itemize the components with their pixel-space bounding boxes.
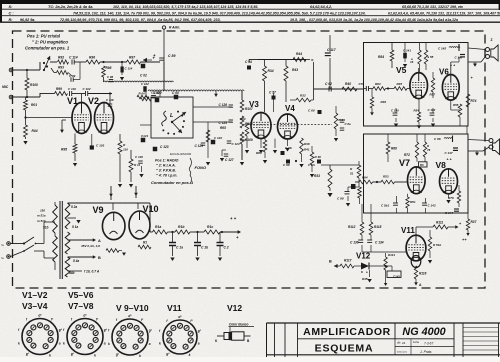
svg-text:R74: R74 bbox=[471, 99, 477, 103]
svg-text:C 126: C 126 bbox=[219, 103, 228, 107]
svg-text:C 62: C 62 bbox=[325, 82, 332, 86]
svg-text:k: k bbox=[18, 341, 20, 345]
svg-text:R109: R109 bbox=[245, 138, 253, 142]
svg-text:+: + bbox=[236, 235, 239, 240]
svg-text:V12: V12 bbox=[227, 303, 242, 313]
svg-text:R117: R117 bbox=[344, 259, 352, 263]
svg-text:C 60: C 60 bbox=[308, 109, 315, 113]
svg-text:fecha: fecha bbox=[413, 341, 420, 344]
svg-text:R97: R97 bbox=[129, 56, 135, 60]
svg-text:C 99: C 99 bbox=[69, 74, 76, 78]
svg-text:R 04: R 04 bbox=[139, 92, 145, 96]
svg-text:110: 110 bbox=[123, 148, 128, 152]
svg-text:V8: V8 bbox=[436, 160, 447, 170]
svg-text:a 55: a 55 bbox=[428, 55, 434, 59]
svg-text:R 36: R 36 bbox=[315, 155, 322, 159]
svg-text:V7–V8: V7–V8 bbox=[68, 301, 94, 311]
svg-text:24: 24 bbox=[402, 341, 406, 345]
svg-text:5 4a: 5 4a bbox=[73, 259, 79, 263]
svg-text:k: k bbox=[189, 353, 191, 357]
svg-text:V11: V11 bbox=[167, 303, 182, 313]
svg-text:V7: V7 bbox=[399, 158, 410, 168]
svg-text:64,62,64,4,2,: 64,62,64,4,2, bbox=[310, 5, 332, 9]
svg-text:C 103: C 103 bbox=[96, 144, 105, 148]
svg-text:Color blanco: Color blanco bbox=[229, 323, 249, 327]
svg-text:R0: R0 bbox=[420, 163, 424, 167]
svg-text:+ +: + + bbox=[447, 158, 452, 162]
svg-text:″ 2: PU magnético: ″ 2: PU magnético bbox=[32, 40, 68, 45]
svg-text:″ 3: P.P.R.B.: ″ 3: P.P.R.B. bbox=[156, 169, 176, 173]
svg-text:C 5b1: C 5b1 bbox=[381, 204, 390, 208]
svg-text:TC: 2a,2a, 2m,2b & 4a 4a.: TC: 2a,2a, 2m,2b & 4a 4a. bbox=[48, 5, 93, 9]
svg-text:C70: C70 bbox=[359, 82, 365, 86]
svg-text:65,68,68 70,1,30 131, 132/17: 65,68,68 70,1,30 131, 132/17 199, etc bbox=[402, 5, 463, 9]
svg-text:51: 51 bbox=[350, 172, 354, 176]
svg-text:C 119: C 119 bbox=[68, 87, 76, 91]
svg-text:ECUALIZADOR: ECUALIZADOR bbox=[170, 152, 192, 156]
svg-text:C 86: C 86 bbox=[434, 137, 441, 141]
svg-text:R111: R111 bbox=[436, 221, 443, 225]
svg-text:C 143: C 143 bbox=[428, 204, 436, 208]
svg-text:96,92 9a.: 96,92 9a. bbox=[20, 18, 35, 22]
svg-text:a: a bbox=[198, 342, 200, 346]
svg-text:16: 16 bbox=[410, 60, 414, 64]
svg-text:C 122: C 122 bbox=[214, 136, 222, 140]
svg-text:C 1a: C 1a bbox=[176, 246, 183, 250]
svg-text:C 147: C 147 bbox=[445, 151, 453, 155]
svg-text:V5–V6: V5–V6 bbox=[68, 290, 94, 300]
svg-text:R04: R04 bbox=[32, 129, 38, 133]
svg-text:C 2: C 2 bbox=[224, 246, 229, 250]
svg-text:R45: R45 bbox=[362, 277, 368, 281]
svg-text:C 124: C 124 bbox=[232, 142, 240, 146]
svg-text:R92: R92 bbox=[58, 56, 64, 60]
svg-text:C 89: C 89 bbox=[168, 54, 175, 58]
svg-text:Conmutador en pos. 1: Conmutador en pos. 1 bbox=[151, 180, 194, 185]
svg-text:C 162: C 162 bbox=[428, 108, 436, 112]
svg-text:54b: 54b bbox=[69, 271, 75, 275]
svg-text:B: B bbox=[98, 256, 101, 260]
svg-text:V2: V2 bbox=[88, 96, 99, 106]
svg-text:R84: R84 bbox=[362, 176, 368, 180]
svg-text:102, 110, 04, 114, 108,023,022: 102, 110, 04, 114, 108,023,022,520, 5,7,… bbox=[113, 5, 258, 9]
svg-text:MIC: MIC bbox=[2, 85, 9, 89]
svg-text:a: a bbox=[149, 342, 151, 346]
svg-text:R33: R33 bbox=[314, 174, 320, 178]
svg-text:R45: R45 bbox=[397, 82, 403, 86]
svg-text:R88: R88 bbox=[391, 147, 397, 151]
svg-text:Conmutador en pos. 1: Conmutador en pos. 1 bbox=[25, 46, 70, 51]
svg-text:C 102: C 102 bbox=[83, 87, 91, 91]
svg-text:dib: dib bbox=[397, 341, 401, 345]
svg-text:7-3-67: 7-3-67 bbox=[424, 341, 433, 345]
svg-text:C 123: C 123 bbox=[160, 145, 169, 149]
svg-text:C 89: C 89 bbox=[337, 197, 344, 201]
svg-text:C 140: C 140 bbox=[391, 109, 399, 113]
svg-text:R34: R34 bbox=[268, 69, 274, 73]
svg-text:C 136: C 136 bbox=[350, 241, 359, 245]
svg-text:19.5, 198, , 017,008,40, 013,0: 19.5, 198, , 017,008,40, 013,019 1a,16, … bbox=[290, 18, 458, 22]
svg-text:C121: C121 bbox=[141, 134, 149, 138]
svg-text:B: B bbox=[329, 260, 332, 264]
svg-text:AMPLIFICADOR: AMPLIFICADOR bbox=[303, 326, 391, 338]
svg-text:C 96: C 96 bbox=[107, 75, 113, 79]
svg-text:ESQUEMA: ESQUEMA bbox=[315, 343, 374, 355]
svg-text:R65: R65 bbox=[220, 126, 226, 130]
svg-text:R64: R64 bbox=[240, 138, 246, 142]
svg-text:C 00: C 00 bbox=[172, 91, 179, 95]
svg-text:7M,53,119, 102, 112, 140, 118,: 7M,53,119, 102, 112, 140, 118, 114, 7a 7… bbox=[73, 11, 366, 15]
svg-text:R83: R83 bbox=[375, 82, 381, 86]
svg-text:K: K bbox=[361, 270, 363, 274]
svg-text:R46: R46 bbox=[381, 100, 387, 104]
svg-text:C 127: C 127 bbox=[225, 158, 234, 162]
svg-text:R37: R37 bbox=[471, 220, 477, 224]
svg-text:Z: Z bbox=[491, 38, 493, 42]
svg-text:m 51a: m 51a bbox=[37, 214, 46, 218]
svg-text:C142: C142 bbox=[393, 275, 400, 279]
svg-text:R116: R116 bbox=[419, 272, 427, 276]
svg-text:C 114: C 114 bbox=[125, 67, 133, 71]
svg-text:R38: R38 bbox=[304, 142, 310, 146]
svg-text:delineante: delineante bbox=[397, 351, 408, 354]
svg-text:R95: R95 bbox=[61, 148, 67, 152]
svg-text:R96: R96 bbox=[89, 56, 95, 60]
svg-text:R01: R01 bbox=[31, 103, 37, 107]
svg-text:R41: R41 bbox=[304, 148, 310, 152]
svg-text:R90: R90 bbox=[240, 117, 246, 121]
svg-text:+ +: + + bbox=[230, 216, 237, 221]
svg-text:R98: R98 bbox=[106, 66, 112, 70]
svg-text:R51: R51 bbox=[410, 200, 416, 204]
svg-text:V1–V2: V1–V2 bbox=[22, 290, 48, 300]
svg-text:V9: V9 bbox=[93, 205, 104, 215]
svg-text:5 2a: 5 2a bbox=[71, 205, 77, 209]
svg-text:k: k bbox=[63, 341, 65, 345]
svg-text:V 9–V10: V 9–V10 bbox=[116, 303, 149, 313]
svg-text:R57: R57 bbox=[430, 93, 436, 97]
svg-text:C :: C : bbox=[9, 11, 15, 16]
svg-text:+: + bbox=[153, 53, 156, 58]
svg-text:C 02: C 02 bbox=[140, 74, 147, 78]
svg-text:R1: R1 bbox=[143, 241, 147, 245]
svg-text:R114: R114 bbox=[388, 253, 395, 257]
svg-text:C 6a: C 6a bbox=[345, 122, 351, 126]
svg-text:V11: V11 bbox=[401, 226, 415, 235]
svg-text:C 114: C 114 bbox=[69, 56, 78, 60]
svg-text:m 51b: m 51b bbox=[37, 219, 46, 223]
svg-text:C 117: C 117 bbox=[327, 48, 336, 52]
svg-text:~: ~ bbox=[1, 256, 4, 262]
svg-text:R:: R: bbox=[9, 17, 14, 22]
svg-text:++: ++ bbox=[462, 237, 467, 242]
svg-text:C 102: C 102 bbox=[141, 82, 149, 86]
svg-text:R43: R43 bbox=[292, 68, 298, 72]
svg-text:R32: R32 bbox=[300, 94, 306, 98]
svg-text:R72: R72 bbox=[404, 153, 410, 157]
svg-text:J. Prats: J. Prats bbox=[419, 350, 432, 354]
svg-text:k: k bbox=[49, 353, 51, 357]
svg-text:R40: R40 bbox=[345, 82, 351, 86]
svg-text:72,98,110,98,96 ,970,716, 999: 72,98,110,98,96 ,970,716, 999 001, 99, 5… bbox=[60, 18, 221, 22]
svg-text:R76: R76 bbox=[448, 196, 454, 200]
svg-text:R54: R54 bbox=[414, 109, 420, 113]
svg-text:150: 150 bbox=[40, 209, 45, 213]
svg-text:R Alim.: R Alim. bbox=[169, 26, 180, 30]
svg-text:C 145: C 145 bbox=[438, 47, 446, 51]
svg-text:FONO: FONO bbox=[195, 165, 207, 170]
svg-text:C 120: C 120 bbox=[153, 91, 162, 95]
svg-text:C 68: C 68 bbox=[283, 163, 290, 167]
svg-text:k: k bbox=[108, 342, 110, 346]
svg-text:C 144: C 144 bbox=[445, 211, 453, 215]
svg-text:A: A bbox=[98, 239, 101, 243]
svg-text:C 129: C 129 bbox=[195, 144, 204, 148]
svg-text:R84: R84 bbox=[378, 55, 384, 59]
svg-text:a: a bbox=[104, 341, 106, 345]
svg-text:~: ~ bbox=[1, 243, 4, 249]
svg-text:5 1a: 5 1a bbox=[72, 225, 78, 229]
svg-text:C 141: C 141 bbox=[403, 49, 411, 53]
svg-text:C 64: C 64 bbox=[245, 60, 252, 64]
svg-text:76: 76 bbox=[427, 148, 431, 152]
svg-text:Pos 1: RADIO: Pos 1: RADIO bbox=[155, 159, 179, 163]
svg-text:R53: R53 bbox=[383, 175, 389, 179]
svg-text:V4: V4 bbox=[285, 104, 295, 113]
svg-text:R1c: R1c bbox=[207, 225, 213, 229]
svg-text:″ 2: R.I.A.A.: ″ 2: R.I.A.A. bbox=[156, 164, 176, 168]
svg-text:f 10, 0.7 A: f 10, 0.7 A bbox=[84, 270, 100, 274]
svg-text:k: k bbox=[94, 353, 96, 357]
svg-text:C 118: C 118 bbox=[135, 155, 143, 159]
svg-text:V12: V12 bbox=[356, 252, 371, 261]
svg-text:C 125: C 125 bbox=[219, 121, 228, 125]
svg-text:R112: R112 bbox=[348, 225, 356, 229]
svg-text:k: k bbox=[159, 342, 161, 346]
svg-text:a: a bbox=[59, 341, 61, 345]
svg-text:R44: R44 bbox=[296, 52, 302, 56]
svg-text:61,62,63,4,6, 65,40,60, 70,130: 61,62,63,4,6, 65,40,60, 70,130 131, 112,… bbox=[388, 11, 500, 15]
svg-text:C 134: C 134 bbox=[375, 241, 384, 245]
svg-text:C 6A: C 6A bbox=[308, 163, 315, 167]
svg-text:C 1b: C 1b bbox=[201, 246, 208, 250]
svg-text:V3–V4: V3–V4 bbox=[22, 301, 48, 311]
svg-text:NG 4000: NG 4000 bbox=[402, 326, 445, 338]
svg-text:R 51b: R 51b bbox=[433, 243, 441, 247]
svg-text:V3: V3 bbox=[249, 100, 259, 109]
svg-text:R115: R115 bbox=[374, 225, 382, 229]
svg-text:″ 4: 78 r.p.m.: ″ 4: 78 r.p.m. bbox=[156, 174, 178, 178]
svg-text:45V 0,3A, 4,8: 45V 0,3A, 4,8 bbox=[80, 244, 100, 248]
svg-text:R1b: R1b bbox=[178, 225, 184, 229]
svg-text:R1a: R1a bbox=[155, 225, 161, 229]
svg-text:R93: R93 bbox=[58, 66, 64, 70]
svg-text:51b: 51b bbox=[43, 226, 49, 230]
svg-text:R99: R99 bbox=[56, 87, 62, 91]
svg-text:R58: R58 bbox=[453, 103, 459, 107]
svg-text:R100: R100 bbox=[30, 83, 38, 87]
svg-text:Pos 1: PU cristal: Pos 1: PU cristal bbox=[27, 34, 61, 39]
svg-text:C 57: C 57 bbox=[269, 91, 276, 95]
